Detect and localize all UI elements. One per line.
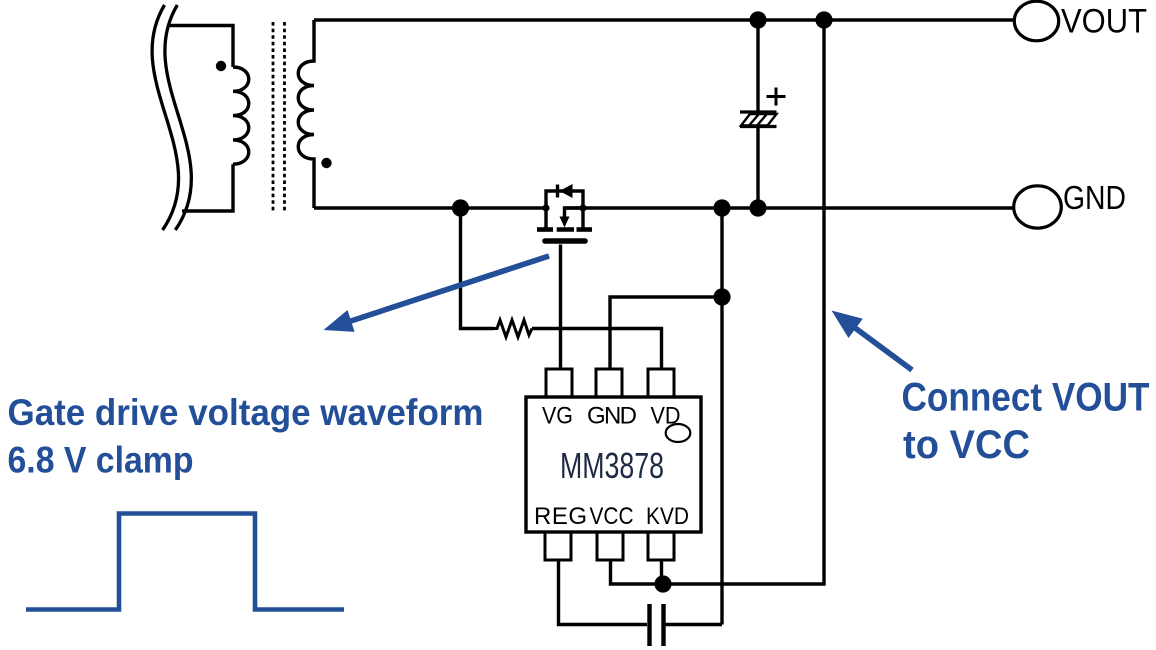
capacitor C1 bottom plate: [740, 125, 777, 128]
IC U1 pin box GND: [596, 369, 622, 397]
svg-text:Gate drive voltage waveform: Gate drive voltage waveform: [8, 392, 484, 433]
svg-text:Connect VOUT: Connect VOUT: [902, 376, 1150, 420]
svg-text:MM3878: MM3878: [560, 445, 664, 486]
node junction dot VCC/KVD: [654, 575, 671, 592]
IC U1 pin box VCC: [597, 532, 623, 560]
svg-text:REG: REG: [534, 503, 587, 530]
wire GND bottom rail left segment (to MOSFET drain): [314, 206, 546, 209]
capacitor C2 left plate: [647, 604, 651, 646]
svg-text:VOUT: VOUT: [1061, 2, 1147, 40]
capacitor C1 hatched plate: [741, 114, 777, 126]
transistor Q1 MOSFET left (drain) lead: [544, 208, 547, 230]
IC U1 pin box VD: [648, 369, 674, 397]
svg-text:VCC: VCC: [590, 503, 634, 530]
node junction dot VOUT-to-VCC tap: [815, 11, 832, 28]
polarity dot primary: [216, 61, 226, 71]
wire REG pin to bottom capacitor: [559, 560, 648, 625]
resistor R1: [494, 320, 532, 337]
transistor Q1 channel dash 3: [577, 227, 593, 232]
node junction dot MOSFET source: [579, 204, 586, 211]
capacitor C1 output electrolytic: top lead: [756, 20, 759, 111]
wire drain sense branch down from rail: [461, 208, 495, 329]
capacitor C1 bottom lead: [756, 127, 759, 208]
svg-text:VG: VG: [542, 403, 573, 430]
transistor Q1 body diode cathode bar: [556, 185, 559, 198]
node junction dot GND pin branch: [713, 288, 730, 305]
transistor Q1 body diode loop: [546, 191, 583, 208]
node junction dot output cap top: [749, 11, 766, 28]
transistor Q1 gate bar: [545, 238, 585, 244]
svg-text:VD: VD: [651, 403, 681, 430]
svg-text:to VCC: to VCC: [903, 423, 1030, 467]
transformer T1 secondary winding: [298, 20, 314, 208]
IC U1 pin box REG: [545, 532, 571, 560]
IC U1 pin box KVD: [648, 532, 674, 560]
terminal GND: [1014, 186, 1062, 228]
transistor Q1 body arrowhead: [560, 217, 570, 228]
capacitor C1 plus sign: [767, 88, 786, 106]
terminal VOUT: [1014, 1, 1058, 41]
IC U1 MM3878 body: [526, 397, 701, 532]
wire primary top: [169, 26, 233, 68]
wire primary bottom: [182, 164, 233, 211]
svg-text:KVD: KVD: [646, 503, 689, 530]
waveform: gate drive square wave: [26, 514, 344, 610]
IC U1 pin1 indicator circle: [666, 424, 691, 442]
svg-text:6.8 V clamp: 6.8 V clamp: [8, 439, 194, 480]
wire GND pin branch up and over: [610, 297, 722, 369]
transistor Q1 channel dash 2: [557, 227, 574, 232]
svg-text:GND: GND: [1063, 179, 1126, 216]
transistor Q1 channel dash 1: [537, 227, 553, 232]
node junction dot GND net vertical: [713, 199, 730, 216]
node junction dot drain branch: [452, 199, 469, 216]
transformer core dashed line right: [283, 22, 286, 211]
transformer T1 primary-side break curve 1: [152, 5, 178, 230]
transistor Q1 body connection stub with arrow: [565, 208, 584, 217]
wire GND net vertical (rail to bottom cap): [720, 208, 723, 625]
transformer T1 primary winding: [233, 67, 249, 164]
svg-text:GND: GND: [587, 403, 637, 430]
capacitor C2 right plate: [661, 604, 665, 646]
annotation arrow to gate waveform: [324, 256, 550, 332]
wire gate to VG pin: [559, 245, 562, 370]
transistor Q1 body diode triangle: [560, 184, 573, 198]
transformer core dashed line left: [272, 22, 275, 211]
wire C2 right plate to GND net: [666, 623, 723, 626]
IC U1 pin box VG: [546, 369, 572, 397]
wire resistor to VD pin: [532, 329, 662, 370]
wire VOUT top rail: [314, 18, 1014, 21]
annotation arrow to VOUT/VCC wire: [832, 311, 913, 371]
capacitor C1 top plate: [740, 110, 777, 113]
wire VOUT to VCC vertical: [663, 20, 824, 584]
transformer T1 primary-side break curve 2: [165, 5, 191, 230]
transistor Q1 MOSFET right (source) lead: [581, 208, 584, 230]
wire GND bottom rail right segment (MOSFET source to GND terminal): [565, 206, 1015, 209]
wire VCC pin down: [611, 560, 664, 584]
polarity dot secondary: [321, 158, 331, 168]
node junction dot MOSFET drain: [542, 204, 549, 211]
node junction dot output cap bottom: [749, 199, 766, 216]
wire KVD pin down: [660, 560, 663, 584]
